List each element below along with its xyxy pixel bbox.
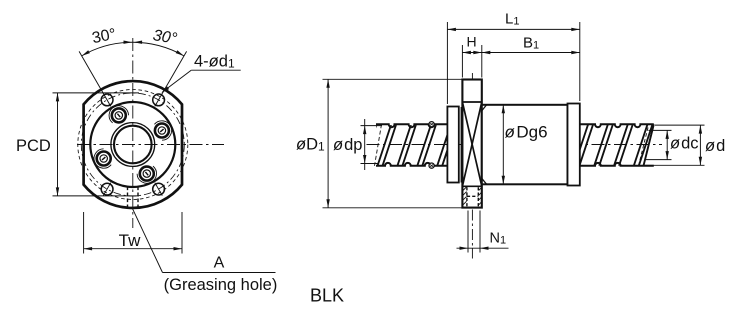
socket screw 4	[137, 166, 156, 183]
hatch in flange grease boss	[463, 187, 467, 191]
dimension L1	[446, 22, 448, 104]
right screw end cut	[644, 124, 654, 166]
nut body circle	[90, 102, 175, 187]
center mark slash bottom-left hole	[103, 183, 111, 196]
left wiper ring	[447, 107, 458, 183]
svg-text:BLK: BLK	[310, 286, 344, 306]
svg-text:PCD: PCD	[16, 137, 51, 155]
svg-text:ød: ød	[705, 137, 725, 155]
angular dimension arc 30+30 degrees	[82, 42, 184, 56]
dimension oDg6 inside body	[502, 105, 504, 185]
dimension odp	[361, 125, 383, 127]
dimension oD1	[323, 78, 463, 80]
bolt hole top-left	[101, 94, 113, 106]
PCD dimension	[53, 92, 140, 94]
vertical centerline front view	[132, 38, 134, 228]
dimension B1	[482, 52, 580, 54]
flange outer profile (circle with side flats)	[84, 81, 182, 208]
bore outer circle (chamfer)	[111, 123, 155, 167]
Tw dimension	[83, 212, 85, 254]
dimension od	[655, 124, 705, 126]
screw thread section	[574, 124, 652, 166]
front view of BLK flanged ball screw nut	[77, 38, 224, 228]
bolt hole bottom-right	[153, 183, 165, 195]
bore inner circle	[114, 126, 152, 164]
svg-text:(Greasing hole): (Greasing hole)	[164, 276, 278, 294]
vertical centerline through flange	[471, 73, 473, 259]
dimension H	[461, 45, 463, 78]
right end ring	[568, 104, 580, 186]
svg-text:ødp: ødp	[333, 136, 362, 154]
bolt hole bottom-left	[101, 183, 113, 195]
side sectional view	[296, 11, 725, 259]
grease hole hidden lines at flange bottom	[127, 187, 129, 208]
leader A (greasing hole)	[132, 208, 162, 272]
ball bottom at nut entry	[429, 163, 434, 168]
flange (sectioned, X-cross)	[462, 80, 481, 208]
screw thread section	[358, 124, 456, 166]
svg-text:ødc: ødc	[670, 135, 699, 153]
grease hole in flange bottom (hidden)	[466, 187, 468, 207]
svg-text:Tw: Tw	[119, 231, 141, 250]
30 degree rays from center through top bolt holes	[79, 51, 111, 106]
center mark slash bottom-right hole	[155, 183, 163, 196]
nut body cylinder	[482, 105, 568, 185]
svg-text:øDg6: øDg6	[505, 123, 548, 142]
horizontal centerline front view	[77, 144, 224, 146]
ball top at nut entry	[429, 122, 434, 127]
svg-text:A: A	[214, 255, 225, 272]
horizontal centerline side view	[367, 144, 663, 146]
socket screw 3	[94, 149, 111, 168]
svg-text:H: H	[467, 34, 477, 50]
dimension N1	[467, 211, 469, 253]
dimension odc	[649, 129, 672, 131]
socket screw 2	[109, 106, 128, 123]
flange section cross lines	[462, 102, 481, 186]
PCD bolt circle (dash-dot)	[81, 93, 184, 196]
bolt hole top-right	[153, 94, 165, 106]
hidden circle beyond flats (dashed)	[78, 90, 188, 200]
thread runout (dashed) near end cut	[639, 124, 649, 166]
body chamfer lines at flange side	[482, 105, 487, 111]
left screw break line (dashed)	[375, 124, 382, 166]
socket screw 1	[154, 121, 171, 140]
